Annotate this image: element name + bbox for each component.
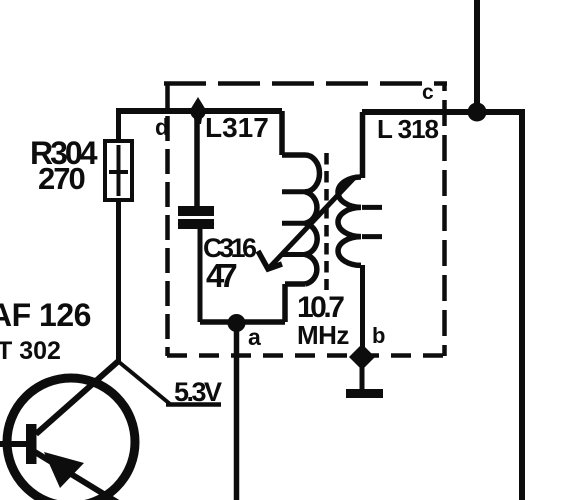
svg-text:c: c: [422, 81, 434, 104]
svg-text:d: d: [155, 114, 169, 140]
svg-text:AF 126: AF 126: [0, 297, 91, 333]
svg-text:L 318: L 318: [377, 114, 439, 144]
svg-text:a: a: [248, 324, 261, 350]
svg-text:b: b: [372, 323, 385, 348]
svg-text:L317: L317: [205, 112, 269, 143]
svg-text:270: 270: [38, 161, 84, 196]
svg-text:5.3V: 5.3V: [174, 377, 222, 407]
svg-text:T 302: T 302: [0, 337, 61, 365]
svg-text:MHz: MHz: [297, 320, 349, 350]
svg-text:47: 47: [206, 257, 236, 294]
